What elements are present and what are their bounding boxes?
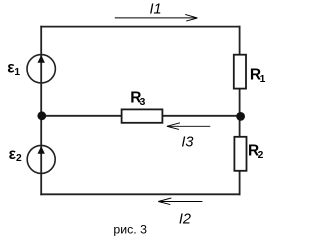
resistor R3 body	[122, 109, 163, 122]
wire bottom	[40, 193, 240, 195]
wire left branch	[40, 26, 42, 196]
EMF source E2 arrowhead	[38, 146, 45, 154]
wire right branch	[239, 26, 241, 196]
resistor R1 body	[234, 55, 246, 89]
svg-text:1: 1	[260, 74, 266, 85]
wire middle branch	[41, 115, 239, 117]
svg-text:I2: I2	[179, 211, 191, 227]
current arrow I3	[167, 123, 210, 130]
EMF source E1 circle	[27, 55, 55, 83]
EMF source E2 circle	[27, 145, 55, 173]
current arrow I2	[158, 198, 202, 205]
svg-text:2: 2	[16, 153, 22, 164]
svg-text:2: 2	[258, 150, 264, 161]
resistor R2 body	[234, 137, 246, 171]
svg-text:рис. 3: рис. 3	[113, 223, 147, 237]
EMF source E1 arrowhead	[38, 55, 45, 63]
wire top	[40, 26, 240, 28]
svg-text:I3: I3	[181, 134, 193, 150]
junction node right	[236, 112, 245, 121]
junction node left	[37, 111, 46, 120]
svg-text:1: 1	[14, 67, 20, 78]
svg-text:I1: I1	[150, 2, 162, 18]
svg-text:3: 3	[140, 97, 146, 108]
current arrow I1	[115, 14, 198, 21]
